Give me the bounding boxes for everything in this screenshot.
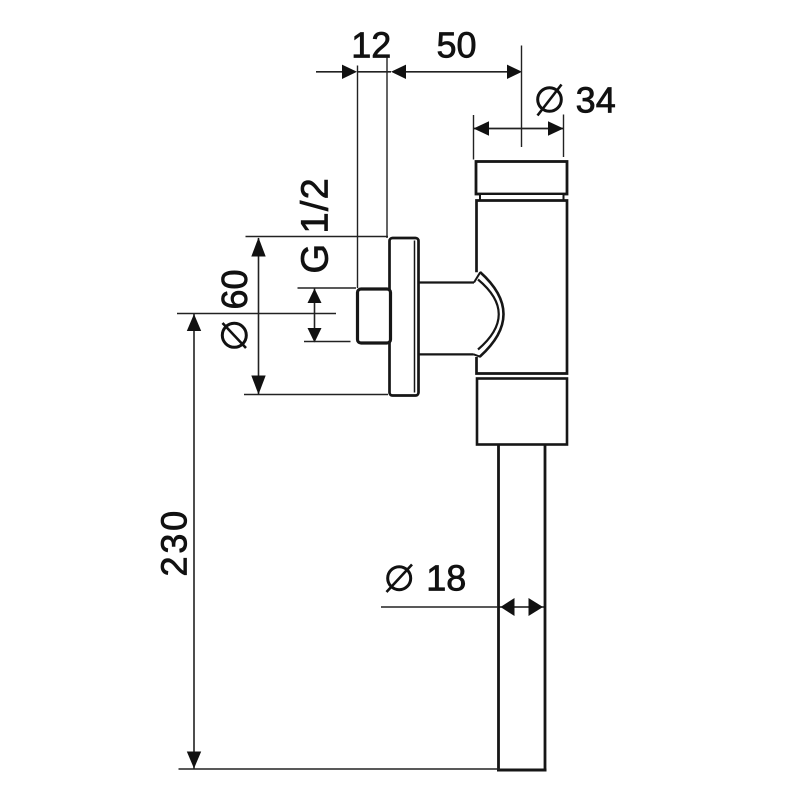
- extension line pipe bottom: [179, 768, 501, 770]
- dimension 50 line: [406, 71, 508, 73]
- dimension d34 line: [474, 128, 564, 130]
- dimension G12 top arrow: [308, 289, 322, 304]
- dimension 230 label: [154, 508, 195, 576]
- extension line flange top: [246, 236, 389, 238]
- extension line body right: [563, 115, 565, 158]
- dimension 12 label: [351, 25, 391, 66]
- inlet pipe bottom line: [419, 353, 474, 355]
- G 1/2 nipple: [358, 289, 391, 343]
- dimension d60 label: [214, 269, 255, 309]
- svg-text:G: G: [295, 244, 337, 274]
- dimension G12 label: [295, 177, 337, 273]
- inlet centerline: [177, 313, 336, 315]
- extension line nipple face: [357, 66, 359, 289]
- dimension d34 left arrow: [474, 121, 490, 135]
- dimension d18 label: [426, 558, 466, 599]
- inlet dome outer arc: [480, 272, 504, 357]
- dimension 50 label: [436, 25, 476, 66]
- svg-text:230: 230: [154, 508, 195, 576]
- dimension d60 bottom arrow: [251, 376, 265, 395]
- svg-text:12: 12: [351, 25, 391, 66]
- dome top ear: [474, 272, 480, 282]
- dimension d18 leader: [381, 606, 498, 608]
- dimension d18 arrows: [499, 598, 546, 616]
- valve body ring band: [480, 194, 564, 201]
- dimension 230 line: [193, 314, 195, 769]
- wall flange: [390, 238, 419, 396]
- svg-text:60: 60: [214, 269, 255, 309]
- dimension 230 top arrow: [187, 314, 201, 331]
- outlet pipe: [497, 445, 547, 771]
- extension line flange bottom: [244, 394, 388, 396]
- dimension G12 bottom arrow: [308, 328, 322, 343]
- inlet pipe top line: [419, 281, 475, 283]
- dimension 50 left arrow: [391, 65, 406, 79]
- extension line flange face: [386, 58, 388, 239]
- extension line nipple top: [298, 287, 357, 289]
- svg-text:50: 50: [436, 25, 476, 66]
- svg-text:1/2: 1/2: [295, 177, 337, 233]
- valve main body: [477, 201, 568, 374]
- dimension d60 line: [258, 238, 260, 394]
- svg-text:18: 18: [426, 558, 466, 599]
- dimension 12 arrow: [342, 65, 357, 79]
- dimension 12 tail line: [316, 71, 343, 73]
- extension line body left: [473, 115, 475, 160]
- dimension d34 right arrow: [548, 121, 564, 135]
- extension line body axis: [521, 46, 523, 148]
- dome bottom ear: [474, 354, 481, 357]
- diameter symbol d60 rotated: [222, 323, 246, 348]
- diameter symbol d34: [538, 85, 562, 116]
- dimension 12 line: [357, 71, 391, 73]
- dimension d60 top arrow: [251, 238, 265, 257]
- dimension 230 bottom arrow: [187, 752, 201, 769]
- extension line nipple bottom: [304, 341, 351, 343]
- valve lower block: [477, 379, 567, 445]
- dimension 50 right arrow: [507, 65, 522, 79]
- diameter symbol d18: [387, 565, 413, 593]
- valve body top cap: [476, 162, 567, 195]
- dimension G12 line: [314, 289, 316, 343]
- inlet dome inner arc: [478, 280, 499, 350]
- dimension d34 label: [576, 80, 616, 121]
- svg-text:34: 34: [576, 80, 616, 121]
